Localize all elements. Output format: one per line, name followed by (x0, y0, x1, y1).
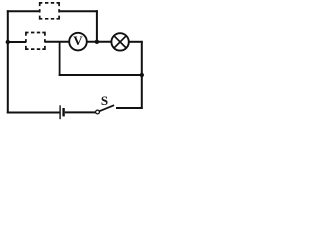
lamp L: cross diagonal 2 (114, 36, 126, 48)
battery: long thin plate (positive) (59, 105, 61, 119)
lamp L: cross diagonal 1 (114, 36, 126, 48)
switch S: lever (open) (99, 105, 114, 111)
node: junction dot right of voltmeter (95, 40, 99, 44)
svg-text:V: V (73, 33, 83, 48)
battery: short thick plate (negative) (62, 108, 64, 116)
wire: bottom-right horizontal after switch to right vertical (116, 107, 143, 109)
wire: top horizontal, right segment from dashed box 1 (59, 10, 98, 12)
wire: top horizontal, left segment to dashed box 1 (7, 10, 40, 12)
wire: branch horizontal y=75 to right vertical (59, 74, 143, 76)
wire: middle row from dashed box 2 to voltmeter (45, 41, 70, 43)
wire: bottom horizontal from battery to switch pivot (65, 111, 96, 113)
svg-text:S: S (101, 93, 108, 108)
switch S: pivot circle (96, 110, 100, 114)
node: junction dot at left vertical / middle row (6, 40, 10, 44)
wire: left vertical (top-left corner down to bottom-left corner) (7, 10, 9, 113)
wire: middle row from left junction to dashed box 2 (7, 41, 26, 43)
wire: middle row from lamp to right corner (129, 41, 143, 43)
dashed box 2 (component placeholder, middle-left) (26, 33, 45, 50)
wire: branch vertical at x=59.6 down from middle row (59, 42, 61, 76)
wire: right vertical from lamp row down to switch row (141, 41, 143, 109)
voltmeter U: circle (69, 33, 87, 51)
dashed box 1 (component placeholder, top) (40, 3, 59, 19)
wire: top-right vertical drop to voltmeter row (96, 10, 98, 42)
wire: bottom-left horizontal from left corner to battery (7, 112, 60, 114)
wire: middle row from voltmeter to lamp (87, 41, 112, 43)
node: junction dot on right vertical at branch row (140, 73, 144, 77)
lamp L: circle (111, 33, 128, 50)
